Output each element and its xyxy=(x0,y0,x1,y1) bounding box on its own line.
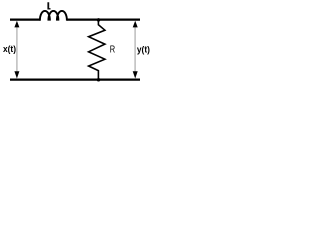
junction dot bottom node xyxy=(97,78,101,82)
svg-text:R: R xyxy=(110,44,116,56)
x(t) bottom arrowhead xyxy=(14,71,19,78)
junction dot top node xyxy=(97,18,101,22)
bottom wire xyxy=(10,79,140,81)
y(t) top arrowhead xyxy=(133,21,138,28)
y(t) bottom arrowhead xyxy=(133,71,138,78)
y(t) arrow shaft xyxy=(134,24,136,75)
resistor R zigzag xyxy=(89,21,105,80)
svg-text:y(t): y(t) xyxy=(137,45,150,55)
inductor L coil humps xyxy=(40,11,67,21)
top wire right segment xyxy=(67,19,140,21)
x(t) arrow shaft xyxy=(16,24,18,75)
top wire left segment xyxy=(10,19,41,21)
x(t) top arrowhead xyxy=(14,21,19,28)
svg-text:x(t): x(t) xyxy=(3,44,16,54)
inductor label L xyxy=(47,2,50,9)
